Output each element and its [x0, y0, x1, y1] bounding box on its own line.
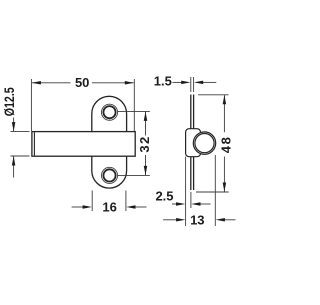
svg-text:1.5: 1.5 — [154, 74, 172, 89]
dimension 48 (plate height, right) — [196, 95, 229, 192]
dimension 2.5 (bar protrusion behind plate) — [172, 157, 211, 226]
svg-text:2.5: 2.5 — [155, 189, 173, 204]
svg-text:13: 13 — [190, 213, 204, 228]
svg-text:32: 32 — [137, 137, 152, 153]
screw hole bottom — [101, 167, 117, 183]
plate (side view, thin vertical section) — [191, 95, 194, 191]
svg-text:16: 16 — [102, 200, 116, 215]
svg-text:48: 48 — [219, 137, 234, 153]
mounting plate (front view, stadium shape) — [92, 96, 127, 188]
svg-text:Ø12.5: Ø12.5 — [2, 87, 17, 116]
dimension 16 (plate width, bottom) — [72, 191, 147, 212]
bar hub block (side view) — [186, 129, 201, 157]
dimension 50 (bar length, top) — [31, 79, 134, 131]
dimension 13 (fitting depth, bottom right) — [163, 155, 235, 226]
screw hole top — [101, 104, 117, 120]
svg-text:50: 50 — [75, 75, 89, 90]
bar end circle (side view, double ring) — [193, 132, 215, 154]
dimension 1.5 (plate thickness, top right) — [173, 77, 217, 92]
dimension 32 (hole spacing, right of plate) — [118, 111, 150, 175]
dimension D12.5 (bar diameter, left) — [11, 118, 30, 178]
bar (front view, horizontal rod crossing plate) — [32, 132, 135, 157]
